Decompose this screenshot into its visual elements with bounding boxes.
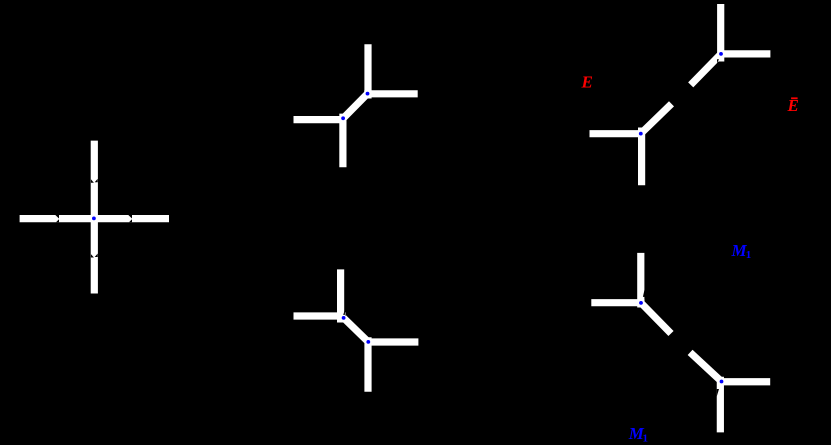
svg-text:1: 1	[746, 249, 752, 261]
svg-text:E: E	[581, 72, 593, 91]
svg-text:1: 1	[643, 432, 649, 444]
